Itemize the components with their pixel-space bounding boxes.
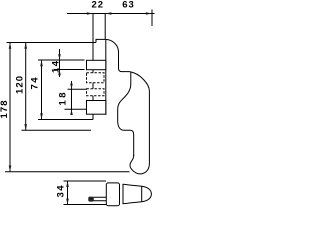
svg-text:14: 14 [51,60,62,73]
dim 18 vertical line [71,81,73,114]
arrow 178 bottom (down, tip y171.7) [9,166,12,172]
arrow 74 bottom (down) [40,113,43,119]
ext line x105 (22 right / 63 left) [104,14,106,40]
ext line y171.7 (178 bottom) [5,171,130,173]
ext line y60 (14 top / 74 top) [38,59,85,61]
dashed rect C (hidden spindle lower) [87,89,105,96]
bottom view hub rounded rect [106,183,119,206]
arrow 120 bottom (down) [24,124,27,130]
arrow 178 top (up, tip y42.5) [9,43,12,49]
ext line y42.5 (top of plate, shared 178/120) [7,42,97,44]
svg-text:34: 34 [56,185,67,198]
svg-text:22: 22 [92,0,104,11]
svg-text:74: 74 [30,77,41,90]
arrow 34 bottom (down, tip y204.5) [66,199,69,205]
arrow 120 top (up) [24,43,27,49]
dim 120 vertical line [25,43,27,131]
ext line y69.5 (14 bottom) [54,69,85,71]
boss face line x105.8 [105,40,107,115]
svg-text:178: 178 [0,101,10,119]
ext line y89.3 (18 top) [68,88,87,90]
svg-text:18: 18 [58,93,69,106]
dim 74 vertical line [41,60,43,120]
arrow 18 outside bottom (up, tip y109.3) [70,109,73,115]
ext line x93 top (22 left) merged with plate face below [92,14,94,120]
bottom view: 34 ext top [64,180,107,182]
screw boss rect A (solid) [87,60,106,69]
svg-text:120: 120 [15,76,26,94]
screw boss rect D (solid) [87,101,106,115]
grip bottom tip bulb [130,155,149,174]
bottom view spindle bar [94,197,107,200]
arrow 14 outside top (down, tip y60) [58,54,61,60]
bottom view cone cap line [141,186,143,202]
ext line y109.3 (18 bottom) [65,108,87,110]
ext line y119.5 (74 bottom / plate bottom) [38,119,93,121]
handle profile: neck top [96,39,130,71]
arrow 22 left (pointing right, tip x93) [87,12,93,15]
dashed rect B (hidden spindle upper) [87,73,105,83]
spindle dark end cap [88,197,94,202]
dim line top horizontal y13.5 [67,13,155,15]
bottom view: 34 ext bottom [64,204,107,206]
ext line x152 (63 right) [151,10,153,27]
ext line y130.3 (120 bottom) [22,129,92,131]
dim 14 vertical line [59,49,61,77]
arrow 34 top (up, tip y181) [66,181,69,187]
arrow 63 left / 22 right (pointing left, tip x105) [105,12,111,15]
arrow 18 outside top (down, tip y89.3) [70,84,73,90]
arrow 74 top (up) [40,60,43,66]
grip inner waist contour [118,72,134,156]
arrow 63 right (pointing right, tip x152) [146,12,152,15]
bottom view grip cone [123,184,151,203]
dim 34 vertical line [67,181,69,205]
svg-text:63: 63 [122,0,134,11]
arrow 14 outside bottom (up, tip y69.5) [58,70,61,76]
grip shoulder arc + outer edge [130,72,150,163]
dim 178 vertical line [9,43,11,172]
